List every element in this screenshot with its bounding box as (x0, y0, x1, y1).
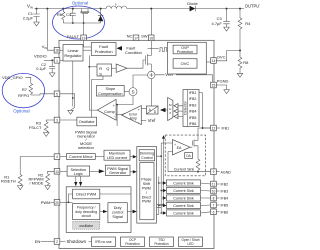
svg-text:Logic: Logic (74, 172, 83, 176)
svg-text:IFB5: IFB5 (189, 116, 197, 120)
buffers detector to MUX (174, 104, 178, 108)
svg-text:+: + (174, 143, 176, 147)
svg-text:OVC: OVC (217, 54, 226, 59)
svg-text:control: control (112, 211, 124, 215)
wires sinks to pins (201, 183, 211, 213)
capacitor C4 (70, 9, 76, 23)
wire top rail (35, 8, 107, 10)
svg-text:circuit: circuit (82, 214, 91, 218)
svg-text:9: 9 (213, 170, 215, 174)
svg-text:19: 19 (82, 36, 86, 40)
svg-text:C2: C2 (41, 63, 46, 67)
svg-text:7: 7 (213, 204, 215, 208)
svg-text:Current Sink: Current Sink (173, 204, 194, 208)
svg-text:C4: C4 (66, 12, 72, 17)
wire pin1 to linear regulator (60, 59, 63, 61)
wire slope comp to summing (124, 91, 129, 93)
wire detector bus to IFB1 pin (199, 93, 211, 128)
wire (26, 77, 31, 83)
svg-text:OVC: OVC (181, 61, 190, 66)
svg-text:IFB6: IFB6 (221, 210, 229, 214)
block Oscillator (77, 117, 97, 126)
wire dimming control to EA (157, 143, 173, 156)
svg-text:10: 10 (212, 190, 216, 194)
wire EA out to comp - (116, 114, 122, 116)
svg-text:Protection: Protection (95, 49, 113, 54)
svg-text:LED: LED (187, 242, 194, 246)
wire sense to PGND with Vref label (155, 75, 213, 82)
wire pin13 to selection logic (60, 170, 67, 172)
node junction dots top rail (36, 8, 38, 10)
waveform glyph (159, 48, 168, 52)
wire Q to driver (111, 67, 116, 69)
svg-text:PWM: PWM (142, 200, 151, 204)
svg-text:Phase: Phase (141, 178, 151, 182)
svg-text:oscillator: oscillator (79, 224, 94, 228)
svg-text:IFB2: IFB2 (221, 183, 229, 187)
svg-text:Condition: Condition (125, 50, 142, 55)
svg-text:+: + (138, 108, 140, 112)
svg-text:Current Sink: Current Sink (174, 168, 195, 172)
block MUX (168, 98, 173, 121)
svg-text:Duty: Duty (114, 206, 122, 210)
wire PMOS gate to FAULT (83, 14, 85, 36)
block IFB no use (92, 237, 116, 247)
block PWM Signal Generator (105, 165, 130, 175)
svg-text:Protection: Protection (154, 242, 169, 246)
ground (34, 22, 40, 26)
svg-text:IFB no use: IFB no use (95, 240, 112, 244)
svg-text:IFB1: IFB1 (222, 127, 230, 131)
pin 19 FAULT (81, 35, 87, 41)
wire oscillator to S input (92, 76, 104, 117)
svg-text:S: S (131, 89, 134, 94)
svg-text:R4: R4 (245, 21, 251, 26)
resistor R7 (29, 83, 33, 95)
svg-text:Signal: Signal (112, 215, 123, 219)
pin 4 RISETH (54, 154, 60, 160)
svg-text:13: 13 (55, 170, 59, 174)
arrow selection logic to PWM signal generator (90, 170, 99, 172)
svg-text:IFB5: IFB5 (221, 204, 229, 208)
svg-text:IFB1: IFB1 (189, 91, 197, 95)
block phase shift inner (140, 163, 154, 220)
pin 15 PGND (211, 82, 217, 88)
svg-text:Generator: Generator (109, 171, 127, 175)
svg-text:Current Mirror: Current Mirror (69, 155, 93, 159)
svg-text:SW: SW (141, 34, 148, 39)
wire SW drop (150, 9, 152, 35)
op-amp Error Amp (122, 106, 142, 125)
svg-text:IFB4: IFB4 (221, 197, 229, 201)
resistor R6 (62, 9, 65, 23)
svg-text:PWM Signal: PWM Signal (107, 167, 128, 171)
block OCP Protection (121, 237, 145, 247)
block Current Mirror (67, 154, 96, 160)
svg-text:Direct PWM: Direct PWM (76, 193, 96, 197)
block Maximum LED current (104, 150, 130, 160)
node divider junction (239, 50, 241, 52)
svg-text:R6: R6 (57, 12, 63, 17)
wire sense down to A/D (150, 79, 152, 106)
block Current Sink 5 (167, 202, 201, 208)
block TSD Protection (150, 237, 174, 247)
svg-text:Current Sink: Current Sink (173, 196, 194, 200)
wire shutdown (60, 241, 92, 243)
block Frequency duty decoding (73, 204, 100, 220)
svg-text:Amp: Amp (130, 117, 137, 121)
svg-text:IFB3: IFB3 (221, 190, 229, 194)
block OVC (173, 59, 197, 68)
block Detector (183, 90, 199, 127)
wire linear regulator down (72, 61, 74, 101)
svg-text:FAULT: FAULT (67, 34, 80, 39)
wire source to sense (150, 64, 152, 71)
svg-text:IFB4: IFB4 (189, 110, 197, 114)
block RS flip-flop (97, 64, 111, 76)
svg-text:VIN: VIN (27, 4, 33, 10)
svg-text:Diode: Diode (187, 1, 198, 6)
bus wires phase shift to sinks (157, 204, 164, 214)
resistor R4 (238, 9, 242, 51)
wire AD to EA+ (141, 108, 146, 110)
wire fault protection down to comparator (89, 55, 97, 110)
wire pin19 into fault protection (84, 41, 92, 47)
resistor R8 (238, 51, 242, 74)
svg-text:Selection: Selection (70, 168, 86, 172)
pin 18 VIN (54, 47, 60, 53)
pin 13 RFPWM (54, 169, 60, 175)
pin 3 FSLCT (54, 117, 60, 123)
svg-text:18: 18 (55, 49, 59, 53)
svg-text:S: S (99, 71, 102, 76)
svg-text:11: 11 (212, 183, 216, 187)
wire pin18 to linear regulator (60, 49, 63, 51)
pin 2 EN (54, 239, 60, 245)
svg-text:16: 16 (149, 36, 153, 40)
transistor RFPO open-drain (60, 94, 75, 111)
svg-text:6: 6 (213, 210, 215, 214)
wire fault condition line to OVP (148, 47, 159, 49)
svg-text:EN: EN (35, 239, 41, 244)
arrow duty control to phase shift box (127, 211, 132, 213)
svg-text:Current Sink: Current Sink (173, 181, 194, 185)
block Dimming Control (139, 150, 154, 161)
wire rail after diode (196, 8, 245, 10)
pin 9 AGND (211, 169, 217, 175)
svg-text:Control: Control (141, 156, 153, 160)
pin 17 NC (133, 35, 139, 41)
svg-text:RFPO: RFPO (18, 93, 29, 98)
arrow MUX to A/D (166, 109, 168, 111)
dashed box current sink detail (165, 135, 205, 176)
svg-text:Direct: Direct (142, 195, 151, 199)
pin 14 OVC (211, 58, 217, 64)
svg-text:selection: selection (78, 145, 94, 150)
capacitor C3 (223, 9, 229, 28)
svg-text:0.1µF: 0.1µF (36, 67, 46, 71)
svg-text:Dimming: Dimming (140, 152, 154, 156)
block OVP sub-box (167, 42, 206, 74)
op-amp Comp (97, 99, 116, 120)
transistor NMOS power FET (145, 54, 151, 66)
svg-text:15: 15 (212, 84, 216, 88)
container box direct PWM (66, 187, 131, 233)
svg-text:VIN: VIN (42, 44, 47, 50)
pin 7 IFB5 (211, 202, 217, 208)
wire sense to summing (133, 75, 148, 88)
svg-text:Shift: Shift (143, 182, 150, 186)
svg-text:VDD_GPIO: VDD_GPIO (2, 75, 23, 80)
pin 8 IFB4 (211, 195, 217, 201)
summing node S (129, 88, 137, 96)
ground (224, 27, 230, 31)
svg-text:Current Sink: Current Sink (173, 189, 194, 193)
resistor sense (196, 159, 211, 172)
block OVP Protection (173, 45, 197, 54)
svg-text:Shutdown: Shutdown (67, 239, 87, 244)
svg-text:Optional: Optional (13, 108, 29, 113)
block Fault Protection (91, 43, 116, 56)
wire OVC to pin14 (197, 61, 211, 63)
block DA (185, 153, 193, 159)
svg-text:20: 20 (55, 201, 59, 205)
wire R input (89, 66, 97, 68)
svg-text:Regulator: Regulator (64, 53, 82, 58)
wire Vref to EA- (141, 119, 146, 121)
svg-text:Detector: Detector (184, 100, 188, 114)
svg-text:FSLCT: FSLCT (29, 125, 42, 130)
svg-text:Oscillator: Oscillator (79, 120, 96, 124)
wire PGND ground external (216, 85, 226, 90)
block Current Sink 4 (167, 195, 201, 201)
resistor R2 RFPWM/MODE (46, 171, 55, 185)
svg-text:Current Sink: Current Sink (173, 211, 194, 215)
svg-text:Protection: Protection (125, 242, 140, 246)
svg-text:R: R (99, 66, 102, 71)
wire direct PWM out (100, 193, 131, 195)
svg-text:Slope: Slope (105, 87, 115, 91)
block Current Sink 6 (167, 210, 201, 216)
wire current mirror to MLC (95, 156, 104, 158)
svg-text:12: 12 (212, 127, 216, 131)
pin 5 RFPO (54, 91, 60, 97)
block Linear Regulator (63, 45, 83, 62)
block Duty control Signal (108, 203, 127, 223)
ground (49, 73, 55, 77)
svg-text:PWM: PWM (41, 200, 51, 205)
wire rail after inductor (127, 8, 189, 10)
svg-text:17: 17 (134, 36, 138, 40)
svg-text:4: 4 (56, 155, 58, 159)
wire driver to NMOS gate (127, 60, 145, 68)
fault condition arrow (117, 46, 123, 51)
svg-text:Vref: Vref (148, 118, 156, 123)
svg-text:8: 8 (213, 197, 215, 201)
svg-text:LED current: LED current (107, 156, 128, 160)
svg-text:3: 3 (56, 119, 58, 123)
svg-text:RISETH: RISETH (1, 179, 16, 184)
svg-text:NC: NC (127, 34, 133, 39)
pin 6 IFB6 (211, 209, 217, 215)
wire RFPO to pin (31, 94, 54, 95)
svg-text:AGND: AGND (221, 170, 232, 174)
pin 12 IFB1 (211, 125, 217, 131)
svg-text:+: + (113, 104, 115, 108)
arrows selection logic down to container (75, 176, 77, 182)
block A/D (147, 106, 159, 114)
wire comp aux vertical (116, 105, 118, 126)
pin 20 PWM (54, 200, 60, 206)
block Current Sink 2 (167, 180, 201, 186)
svg-text:2: 2 (56, 240, 58, 244)
Optional ellipse left (2, 73, 44, 107)
wire EA feedback input (168, 152, 198, 172)
svg-text:IFB2: IFB2 (189, 97, 197, 101)
wire drain to SW (150, 41, 152, 56)
svg-text:Protection: Protection (177, 50, 193, 54)
svg-text:/: / (146, 191, 147, 195)
wire summing to comp + (116, 96, 133, 105)
svg-text:EA: EA (177, 146, 182, 150)
pin 11 IFB2 (211, 181, 217, 187)
svg-text:IFB3: IFB3 (189, 103, 197, 107)
svg-text:Q: Q (106, 66, 109, 71)
svg-text:4.7µF: 4.7µF (211, 21, 222, 26)
svg-text:2.2µF: 2.2µF (23, 16, 34, 21)
svg-text:PGND: PGND (217, 79, 229, 84)
resistor R1 RISETH (18, 157, 54, 186)
diode D2 vertical (98, 9, 103, 23)
svg-text:14: 14 (212, 59, 216, 63)
resistor R3 FSLCT (44, 120, 54, 132)
svg-text:PWM: PWM (142, 187, 151, 191)
svg-text:OUTPUT: OUTPUT (245, 4, 260, 9)
wire VDDIO (44, 59, 54, 61)
block Slope Compensation (97, 86, 125, 97)
wire pin3 to oscillator (60, 119, 77, 121)
gate driver (116, 64, 127, 72)
block oscillator shaded (73, 221, 100, 229)
arrow PSG to phase shift box (130, 171, 133, 173)
capacitor C2 (49, 60, 55, 73)
block Direct PWM (73, 189, 100, 199)
svg-text:Compensation: Compensation (98, 92, 122, 96)
transistor PMOS disconnect (82, 9, 88, 12)
svg-text:5: 5 (56, 92, 58, 96)
capacitor C1 (36, 9, 38, 14)
op-amp EA (173, 140, 191, 156)
inductor L (106, 6, 127, 9)
wire optional bottom (63, 22, 100, 24)
pin 1 VDDIO (54, 58, 60, 64)
wire pin4 to current mirror (60, 156, 67, 158)
current sense node (148, 71, 155, 78)
svg-text:IFB6: IFB6 (189, 122, 197, 126)
transistor sink FET (190, 140, 198, 148)
svg-text:1: 1 (56, 59, 58, 63)
wire linear regulator to fault protection (83, 49, 91, 51)
svg-text:R8: R8 (243, 60, 249, 65)
block Current Sink 3 (167, 187, 201, 193)
arrow MLC to dimming control (130, 156, 133, 158)
svg-text:X: X (169, 111, 171, 115)
svg-text:-: - (174, 152, 175, 156)
pin 16 SW (148, 35, 154, 41)
wire freq to duty control (100, 211, 103, 213)
wire OVC tap (216, 51, 240, 61)
svg-text:VDDIO: VDDIO (34, 53, 47, 58)
block Phase Shift PWM / Direct PWM outer (137, 147, 157, 224)
Optional ellipse top (53, 6, 105, 39)
block Selection Logic (67, 166, 90, 176)
wire VIN drop to pin 18 (47, 9, 54, 51)
svg-text:Optional: Optional (72, 0, 88, 5)
wire PWM pin into container (60, 201, 73, 203)
arrows into current sinks (163, 181, 167, 185)
svg-text:R7: R7 (22, 87, 28, 92)
svg-text:Maximum: Maximum (109, 152, 125, 156)
ground (237, 73, 243, 77)
block Open / Short LED (179, 237, 203, 247)
svg-text:/ MODE: / MODE (29, 180, 44, 185)
pin 10 IFB3 (211, 188, 217, 194)
